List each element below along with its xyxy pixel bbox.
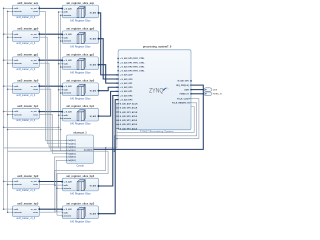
wire arrowhead into PS7 bbox=[117, 99, 119, 101]
svg-text:aresetn: aresetn bbox=[64, 40, 72, 43]
svg-text:axi3_master_v1_0: axi3_master_v1_0 bbox=[16, 189, 35, 192]
wire slice M_AXI to PS7 hp0 bbox=[99, 87, 119, 90]
svg-text:M_AXI_GP0: M_AXI_GP0 bbox=[178, 80, 190, 83]
svg-text:axi_register_slice_gp0: axi_register_slice_gp0 bbox=[66, 27, 94, 31]
svg-text:+ S_AXI: + S_AXI bbox=[64, 7, 72, 10]
svg-text:axi3_master_hp1: axi3_master_hp1 bbox=[17, 104, 39, 108]
wire m_axi master to slice S_AXI bbox=[39, 208, 62, 210]
svg-text:+ S_AXI: + S_AXI bbox=[64, 59, 72, 62]
wire S_AXI ACLK stub bbox=[117, 103, 118, 105]
svg-text:axi_register_slice_gp1: axi_register_slice_gp1 bbox=[66, 53, 94, 57]
block xlconcat_1 (Concat) bbox=[66, 131, 93, 168]
pin S_AXI_HP0 bbox=[117, 86, 119, 88]
block processing_system7_0 (ZYNQ7 Processing System) bbox=[117, 45, 192, 134]
svg-text:+ S_AXI_HP0: + S_AXI_HP0 bbox=[120, 86, 133, 89]
svg-text:+ S_AXI_GP1: + S_AXI_GP1 bbox=[120, 82, 134, 85]
wire aresetn stub to master bbox=[8, 36, 13, 38]
wire aclk stub to slice bbox=[59, 37, 63, 39]
external port DDR bbox=[204, 88, 218, 92]
wire slice M_AXI to PS7 acp bbox=[99, 13, 119, 75]
svg-text:+ S_AXI_HP1_FIFO_CTRL: + S_AXI_HP1_FIFO_CTRL bbox=[120, 61, 145, 64]
block axi3_master_hp0 bbox=[12, 79, 40, 97]
pin S_AXI_GP0 bbox=[117, 78, 119, 80]
svg-text:+ S_AXI_HP3_FIFO_CTRL: + S_AXI_HP3_FIFO_CTRL bbox=[120, 70, 145, 73]
svg-text:axi3_master_v1_0: axi3_master_v1_0 bbox=[16, 42, 35, 45]
svg-text:M_AXI: M_AXI bbox=[90, 63, 97, 66]
wire FCLK branch inner bbox=[117, 107, 194, 133]
wire S_AXI ACLK stub bbox=[117, 107, 118, 109]
pin S_AXI_HP1 bbox=[117, 90, 119, 92]
wire clock to PS7 FCLK_CLK0 bbox=[117, 99, 199, 148]
svg-text:axi3_master_hp0: axi3_master_hp0 bbox=[17, 79, 39, 83]
block axi_register_slice_hp1 bbox=[61, 104, 100, 126]
wire clock mid rail (slices) bbox=[58, 12, 60, 148]
block axi_register_slice_gp0 bbox=[61, 27, 100, 49]
wire aresetn stub to master bbox=[8, 62, 13, 64]
wire aclk stub to master bbox=[4, 59, 13, 61]
wire aclk stub to master bbox=[4, 180, 13, 182]
svg-text:m_axi: m_axi bbox=[31, 8, 37, 10]
pin FIXED_IO bbox=[190, 93, 192, 95]
pin DDR bbox=[190, 89, 192, 91]
wire aresetn stub to slice bbox=[61, 40, 63, 42]
wire error to concat In2 bbox=[39, 63, 66, 147]
svg-text:AXI Register Slice: AXI Register Slice bbox=[70, 96, 91, 100]
wire clock branch left-rail to mid-rail bbox=[4, 126, 59, 128]
svg-text:M_AXI: M_AXI bbox=[90, 37, 97, 40]
svg-text:+ S_AXI_HP1: + S_AXI_HP1 bbox=[120, 90, 133, 93]
svg-text:axi3_master_hp3: axi3_master_hp3 bbox=[17, 202, 39, 206]
pin S_AXI_HP1_FIFO_CTRL bbox=[117, 62, 119, 64]
wire aclk stub to master bbox=[4, 7, 13, 9]
pin S_AXI_HP3_ACLK bbox=[118, 128, 120, 129]
svg-text:AXI Register Slice: AXI Register Slice bbox=[70, 219, 91, 223]
wire reset to PS7 FCLK_RESET0_N bbox=[114, 103, 196, 151]
svg-text:aresetn: aresetn bbox=[64, 187, 72, 190]
svg-text:FIXED_IO: FIXED_IO bbox=[180, 94, 190, 96]
wire aresetn stub to master bbox=[8, 114, 13, 116]
pin FCLK_RESET0_N bbox=[189, 102, 191, 103]
svg-text:Concat: Concat bbox=[76, 165, 84, 168]
svg-text:axi3_master_hp2: axi3_master_hp2 bbox=[17, 174, 39, 178]
svg-text:aresetn: aresetn bbox=[14, 211, 22, 214]
pin S_AXI_HP0_ACLK bbox=[118, 115, 120, 116]
wire m_axi master to slice S_AXI bbox=[39, 181, 62, 183]
svg-text:aresetn: aresetn bbox=[64, 14, 72, 17]
wire dout[6:0] to IRQ_F2P bbox=[94, 85, 204, 149]
svg-text:m_axi: m_axi bbox=[31, 86, 37, 88]
wire m_axi master to slice S_AXI bbox=[39, 85, 62, 87]
svg-text:AXI Register Slice: AXI Register Slice bbox=[70, 192, 91, 196]
svg-text:error: error bbox=[33, 211, 38, 214]
svg-text:ZYNQ7 Processing System: ZYNQ7 Processing System bbox=[140, 130, 174, 134]
svg-text:axi3_master_v1_0: axi3_master_v1_0 bbox=[16, 94, 35, 97]
wire arrowhead into PS7 bbox=[117, 91, 119, 93]
svg-text:error: error bbox=[33, 88, 38, 91]
wire m_axi master to slice S_AXI bbox=[39, 33, 62, 35]
svg-text:S_AXI_HP1_ACLK: S_AXI_HP1_ACLK bbox=[120, 119, 138, 122]
svg-text:M_AXI: M_AXI bbox=[90, 185, 97, 188]
wire aclk stub to master bbox=[4, 33, 13, 35]
svg-text:AXI Register Slice: AXI Register Slice bbox=[70, 122, 91, 126]
svg-text:axi3_master_acp: axi3_master_acp bbox=[17, 1, 38, 5]
svg-text:error: error bbox=[33, 183, 38, 186]
wire error to concat In6 bbox=[39, 160, 66, 212]
wire S_AXI ACLK stub bbox=[117, 111, 118, 113]
pin M_AXI_GP0 bbox=[190, 80, 192, 82]
pin S_AXI_GP1 bbox=[117, 82, 119, 84]
svg-text:S_AXI_ACP_ACLK: S_AXI_ACP_ACLK bbox=[120, 103, 138, 106]
pin In5[0:0] bbox=[66, 156, 68, 157]
svg-text:axi3_master_v1_0: axi3_master_v1_0 bbox=[16, 217, 35, 220]
pin S_AXI_HP3 bbox=[117, 99, 119, 101]
svg-text:+ S_AXI: + S_AXI bbox=[64, 180, 72, 183]
wire S_AXI ACLK stub bbox=[117, 115, 118, 117]
svg-text:+ S_AXI_HP2: + S_AXI_HP2 bbox=[120, 94, 133, 97]
svg-text:m_axi: m_axi bbox=[31, 111, 37, 113]
block axi3_master_gp0 bbox=[12, 27, 40, 45]
block axi_register_slice_hp0 bbox=[61, 79, 100, 101]
block axi3_master_hp1 bbox=[12, 104, 40, 122]
wire aclk stub to slice bbox=[59, 63, 63, 65]
svg-text:aresetn: aresetn bbox=[64, 117, 72, 120]
svg-text:ZYNQ: ZYNQ bbox=[149, 88, 164, 95]
svg-text:aresetn: aresetn bbox=[14, 113, 22, 116]
external port FIXED_IO bbox=[204, 92, 223, 96]
svg-text:m_axi: m_axi bbox=[31, 181, 37, 183]
wire FIXED_IO bbox=[191, 93, 204, 95]
svg-text:axi3_master_gp1: axi3_master_gp1 bbox=[17, 53, 39, 57]
svg-text:S_AXI_HP3_ACLK: S_AXI_HP3_ACLK bbox=[120, 127, 138, 130]
wire arrowhead into PS7 bbox=[117, 78, 119, 80]
svg-text:xlconcat_1: xlconcat_1 bbox=[73, 131, 87, 135]
svg-text:axi_register_slice_hp1: axi_register_slice_hp1 bbox=[66, 104, 94, 108]
pin S_AXI_ACP_ACLK bbox=[118, 103, 120, 104]
svg-text:AXI Register Slice: AXI Register Slice bbox=[70, 70, 91, 74]
svg-text:AXI Register Slice: AXI Register Slice bbox=[70, 44, 91, 48]
block axi_register_slice_hp2 bbox=[61, 174, 100, 196]
svg-text:M_AXI: M_AXI bbox=[90, 212, 97, 215]
wire S_AXI ACLK stub bbox=[117, 128, 118, 130]
svg-text:+ S_AXI_HP3: + S_AXI_HP3 bbox=[120, 98, 133, 101]
svg-text:+ S_AXI: + S_AXI bbox=[64, 111, 72, 114]
wire slice M_AXI to PS7 gp1 bbox=[99, 65, 119, 83]
svg-text:In1[0:0]: In1[0:0] bbox=[68, 143, 75, 145]
wire reset branch to hp2/hp3 slices bbox=[57, 151, 108, 215]
wire error to concat In1 bbox=[39, 37, 66, 143]
wire error to concat In0 bbox=[39, 11, 66, 140]
block axi3_master_gp1 bbox=[12, 53, 40, 71]
wire error to concat In5 bbox=[39, 157, 66, 185]
svg-text:In5[0:0]: In5[0:0] bbox=[68, 157, 75, 159]
wire S_AXI ACLK stub bbox=[117, 119, 118, 121]
wire arrowhead into PS7 bbox=[117, 82, 119, 84]
svg-text:m_axi: m_axi bbox=[31, 60, 37, 62]
wire FCLK_CLK0 net: left rail bbox=[4, 8, 117, 148]
wire aclk stub to master bbox=[4, 85, 13, 87]
wire error to concat In3 bbox=[39, 89, 66, 150]
svg-text:M_AXI: M_AXI bbox=[90, 12, 97, 15]
wire slice M_AXI to PS7 gp0 bbox=[99, 39, 119, 79]
svg-text:+ S_AXI_HP2_FIFO_CTRL: + S_AXI_HP2_FIFO_CTRL bbox=[120, 65, 145, 68]
svg-text:M_AXI: M_AXI bbox=[90, 89, 97, 92]
svg-text:axi3_master_gp0: axi3_master_gp0 bbox=[17, 27, 39, 31]
svg-text:m_axi: m_axi bbox=[31, 209, 37, 211]
svg-text:+ S_AXI_HP0_FIFO_CTRL: + S_AXI_HP0_FIFO_CTRL bbox=[120, 57, 145, 60]
block axi_register_slice_gp1 bbox=[61, 53, 100, 75]
svg-text:aresetn: aresetn bbox=[14, 183, 22, 186]
svg-text:aresetn: aresetn bbox=[14, 10, 22, 13]
svg-text:axi_register_slice_hp0: axi_register_slice_hp0 bbox=[66, 79, 94, 83]
wire reset mid rail (slices) bbox=[60, 15, 62, 151]
pin In0[0:0] bbox=[66, 140, 68, 141]
pin S_AXI_HP0_FIFO_CTRL bbox=[117, 57, 119, 59]
pin S_AXI_HP3_FIFO_CTRL bbox=[117, 70, 119, 72]
pin S_AXI_GP1_ACLK bbox=[118, 111, 120, 112]
svg-text:aresetn: aresetn bbox=[14, 62, 22, 65]
svg-text:+ S_AXI: + S_AXI bbox=[64, 33, 72, 36]
pin In3[0:0] bbox=[66, 150, 68, 151]
wire slice M_AXI to PS7 hp3 bbox=[99, 100, 119, 214]
block axi3_master_hp2 bbox=[12, 174, 40, 192]
wire aclk stub to slice bbox=[59, 89, 63, 91]
svg-text:S_AXI_HP0_ACLK: S_AXI_HP0_ACLK bbox=[120, 115, 138, 118]
wire aresetn stub to slice bbox=[61, 92, 63, 94]
wire clock branch to hp2/hp3 slices bbox=[55, 148, 106, 212]
svg-text:FCLK_RESET0_N: FCLK_RESET0_N bbox=[172, 103, 189, 105]
svg-text:S_AXI_HP2_ACLK: S_AXI_HP2_ACLK bbox=[120, 123, 138, 126]
svg-text:+ S_AXI: + S_AXI bbox=[64, 208, 72, 211]
svg-text:S_AXI_GP0_ACLK: S_AXI_GP0_ACLK bbox=[120, 107, 138, 110]
wire arrowhead into PS7 bbox=[117, 86, 119, 88]
wire aresetn stub to slice bbox=[61, 66, 63, 68]
pin In1[0:0] bbox=[66, 143, 68, 144]
pin FCLK_CLK0 bbox=[189, 98, 191, 99]
wire m_axi master to slice S_AXI bbox=[39, 111, 62, 113]
wire S_AXI ACLK stub bbox=[117, 123, 118, 125]
wire aresetn stub to master bbox=[8, 211, 13, 213]
svg-text:processing_system7_0: processing_system7_0 bbox=[143, 45, 172, 49]
svg-text:aresetn: aresetn bbox=[14, 36, 22, 39]
pin In4[0:0] bbox=[66, 153, 68, 154]
block axi_register_slice_hp3 bbox=[61, 202, 100, 224]
svg-text:aresetn: aresetn bbox=[64, 92, 72, 95]
wire aresetn stub to slice bbox=[61, 14, 63, 16]
wire aclk stub to master bbox=[4, 111, 13, 113]
wire aclk stub to slice bbox=[59, 114, 63, 116]
wire arrowhead into PS7 bbox=[117, 95, 119, 97]
svg-text:error: error bbox=[33, 36, 38, 39]
svg-text:axi3_master_v1_0: axi3_master_v1_0 bbox=[16, 68, 35, 71]
block axi3_master_hp3 bbox=[12, 202, 40, 220]
svg-text:DDR: DDR bbox=[184, 89, 189, 91]
pin S_AXI_HP1_ACLK bbox=[118, 120, 120, 121]
svg-text:+ S_AXI_ACP: + S_AXI_ACP bbox=[120, 74, 134, 77]
wire aresetn stub to slice bbox=[61, 117, 63, 119]
wire DDR bbox=[191, 89, 204, 91]
svg-text:S_AXI_GP1_ACLK: S_AXI_GP1_ACLK bbox=[120, 111, 138, 114]
svg-text:error: error bbox=[33, 10, 38, 13]
pin S_AXI_GP0_ACLK bbox=[118, 107, 120, 108]
wire arrowhead into PS7 bbox=[117, 74, 119, 76]
pin S_AXI_HP2_ACLK bbox=[118, 124, 120, 125]
wire m_axi master to slice S_AXI bbox=[39, 7, 62, 9]
svg-text:FCLK_CLK0: FCLK_CLK0 bbox=[177, 98, 190, 100]
wire reset branch left-rail to mid-rail bbox=[8, 129, 61, 131]
svg-text:axi_register_slice_acp: axi_register_slice_acp bbox=[66, 1, 94, 5]
wire aclk stub to master bbox=[4, 208, 13, 210]
pin S_AXI_ACP bbox=[117, 74, 119, 76]
svg-text:axi_register_slice_hp2: axi_register_slice_hp2 bbox=[66, 174, 94, 178]
svg-text:+ S_AXI: + S_AXI bbox=[64, 85, 72, 88]
svg-text:IRQ_F2P[6:0]: IRQ_F2P[6:0] bbox=[176, 85, 189, 87]
svg-text:axi_register_slice_hp3: axi_register_slice_hp3 bbox=[66, 202, 94, 206]
wire aresetn stub to master bbox=[8, 184, 13, 186]
wire aclk stub to slice bbox=[59, 11, 63, 13]
svg-text:+ S_AXI_GP0: + S_AXI_GP0 bbox=[120, 78, 134, 81]
pin S_AXI_HP2_FIFO_CTRL bbox=[117, 66, 119, 68]
wire error to concat In4 bbox=[39, 115, 66, 154]
svg-text:axi3_master_v1_0: axi3_master_v1_0 bbox=[16, 16, 35, 19]
wire aresetn stub to master bbox=[8, 10, 13, 12]
block axi_register_slice_acp bbox=[61, 1, 100, 23]
svg-text:AXI Register Slice: AXI Register Slice bbox=[70, 19, 91, 23]
svg-text:m_axi: m_axi bbox=[31, 34, 37, 36]
svg-text:In4[0:0]: In4[0:0] bbox=[68, 152, 75, 155]
svg-text:FIXED_IO: FIXED_IO bbox=[213, 94, 223, 96]
svg-text:DDR: DDR bbox=[213, 89, 218, 91]
svg-text:aresetn: aresetn bbox=[64, 66, 72, 69]
wire FCLK_RESET0_N net: left rail bbox=[8, 11, 109, 151]
svg-text:error: error bbox=[33, 62, 38, 65]
svg-text:aresetn: aresetn bbox=[14, 88, 22, 91]
pin In2[0:0] bbox=[66, 146, 68, 147]
wire m_axi master to slice S_AXI bbox=[39, 59, 62, 61]
wire aresetn stub to master bbox=[8, 88, 13, 90]
svg-text:aresetn: aresetn bbox=[64, 215, 72, 218]
wire slice M_AXI to PS7 hp2 bbox=[99, 96, 119, 186]
wire slice M_AXI to PS7 hp1 bbox=[99, 91, 119, 116]
pin IRQ_F2P[6:0] bbox=[190, 84, 192, 85]
pin S_AXI_HP2 bbox=[117, 95, 119, 97]
svg-text:error: error bbox=[33, 113, 38, 116]
svg-text:In6[0:0]: In6[0:0] bbox=[68, 160, 75, 162]
pin In6[0:0] bbox=[66, 160, 68, 161]
svg-text:axi3_master_v1_0: axi3_master_v1_0 bbox=[16, 119, 35, 122]
svg-text:In0[0:0]: In0[0:0] bbox=[68, 140, 75, 142]
svg-text:M_AXI: M_AXI bbox=[90, 115, 97, 118]
block axi3_master_acp bbox=[12, 1, 40, 19]
